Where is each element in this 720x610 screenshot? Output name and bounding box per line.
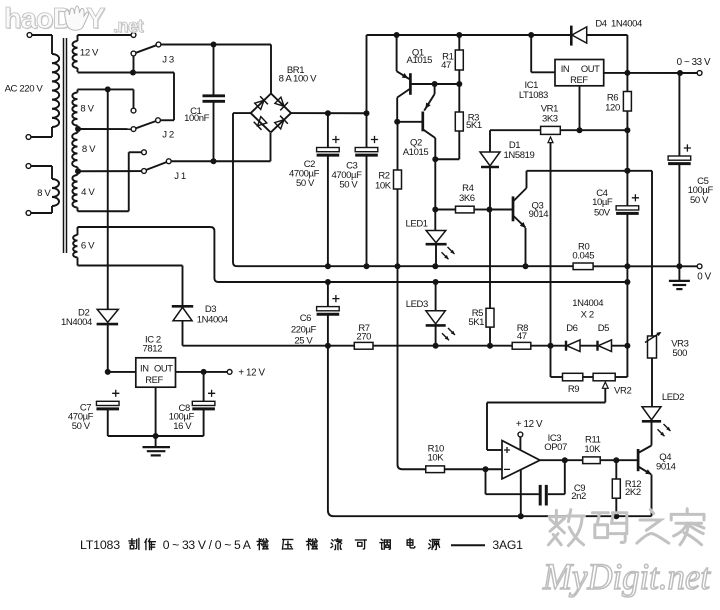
regulator IC1 LT1083 [555, 60, 604, 86]
label J2 [162, 130, 174, 141]
label C4 [592, 188, 613, 218]
capacitor C7 [96, 390, 155, 436]
svg-text:0.045: 0.045 [572, 250, 594, 261]
watermark MyDigit.net [542, 509, 712, 598]
resistor R2 [394, 122, 402, 266]
resistor R7 [354, 342, 512, 349]
wire 4V bottom to J1 upper contact [78, 152, 142, 211]
wire VR1 node [490, 127, 630, 133]
svg-text:0 ~ 33 V / 0 ~ 5 A: 0 ~ 33 V / 0 ~ 5 A [163, 538, 252, 552]
svg-text:10K: 10K [584, 444, 601, 455]
transformer core [64, 38, 67, 253]
wire aux rail 282 [222, 266, 630, 345]
transformer secondary 8V winding 1 [72, 89, 77, 129]
svg-text:8 V: 8 V [37, 188, 51, 199]
svg-text:A1015: A1015 [407, 55, 433, 66]
svg-text:16 V: 16 V [173, 421, 192, 432]
label R0 [572, 241, 594, 261]
label C2 [289, 159, 320, 189]
svg-text:REF: REF [145, 374, 163, 385]
transistor Q3 [487, 171, 527, 266]
svg-text:D3: D3 [205, 304, 216, 315]
svg-text:10K: 10K [428, 453, 445, 464]
label Q3 [529, 201, 549, 221]
label C6 [291, 313, 317, 346]
label C5 [688, 176, 714, 206]
svg-text:100nF: 100nF [184, 113, 210, 124]
label 0V [697, 271, 711, 282]
svg-text:LED2: LED2 [662, 392, 684, 403]
resistor R8 [512, 342, 553, 349]
svg-text:0 ~ 33 V: 0 ~ 33 V [677, 57, 711, 68]
svg-text:6 V: 6 V [81, 240, 95, 251]
svg-text:500: 500 [672, 348, 687, 359]
label R9 [568, 384, 579, 395]
resistor R1 [455, 35, 463, 84]
label Q2 [403, 138, 429, 159]
diode D5 [598, 340, 631, 352]
label LED2 [662, 392, 684, 403]
label 1N4004 X2 [572, 298, 603, 320]
svg-text:LED1: LED1 [406, 219, 428, 230]
wire IC2 REF [153, 387, 159, 439]
svg-text:0 V: 0 V [697, 271, 711, 282]
label D6 [566, 323, 577, 334]
wire R10 feed [398, 266, 405, 469]
svg-text:LT1083: LT1083 [519, 90, 548, 101]
svg-text:8 V: 8 V [80, 103, 94, 114]
transformer secondary 12V winding [73, 35, 78, 72]
wire bridge minus to 0V rail [233, 113, 251, 266]
wire rail345 left [183, 343, 355, 349]
wire primary top lead [27, 33, 52, 54]
svg-text:J 2: J 2 [162, 130, 174, 141]
label BR1 [279, 65, 317, 84]
transformer secondary 8V winding 2 [72, 129, 77, 171]
svg-text:120: 120 [605, 102, 620, 113]
capacitor C1 [203, 45, 226, 162]
capacitor C6 [317, 282, 340, 346]
label R7 [356, 323, 371, 342]
transformer secondary 4V winding [72, 171, 77, 211]
label C7 [68, 403, 94, 432]
label R5 [468, 308, 484, 328]
op-amp IC3 OP07 [486, 441, 541, 479]
label C8 [169, 403, 195, 432]
wire IC2 OUT to +12V [176, 369, 233, 375]
label 8V sec2 [82, 144, 96, 155]
wire plus riser [367, 35, 397, 113]
label R8 [517, 323, 528, 342]
label D2 [61, 307, 92, 328]
svg-text:25 V: 25 V [294, 335, 313, 346]
svg-text:VR2: VR2 [614, 386, 631, 397]
transistor Q4 [616, 446, 651, 517]
svg-text:OUT: OUT [581, 63, 600, 74]
svg-text:270: 270 [356, 331, 371, 342]
wire REF lead [579, 86, 581, 130]
caption LT1083 power supply title [80, 538, 523, 552]
svg-text:IN: IN [561, 63, 570, 74]
wire D4 corner down [626, 35, 628, 73]
svg-text:3AG1: 3AG1 [492, 538, 523, 552]
svg-text:+ 12 V: + 12 V [238, 367, 265, 378]
label J1 [174, 171, 186, 182]
label 12V [80, 47, 99, 58]
svg-text:5K1: 5K1 [466, 120, 482, 131]
diode D2 1N4004 [97, 89, 119, 372]
wire 0V rail left [241, 263, 573, 269]
switch J1 [142, 150, 172, 174]
resistor R5 [486, 210, 494, 346]
wire Q3 collector to VR3 [527, 168, 653, 336]
label D3 [197, 304, 228, 325]
diode D1 1N5819 [480, 130, 500, 209]
diode D6 [551, 340, 598, 352]
ground at IC2 [143, 436, 171, 455]
node tap 8V2/4V [75, 168, 142, 174]
wire primary2 bottom lead [26, 206, 52, 215]
svg-text:2K2: 2K2 [625, 487, 641, 498]
switch J3 [131, 42, 161, 70]
label J3 [162, 55, 174, 66]
svg-text:MyDigit.net: MyDigit.net [542, 557, 712, 598]
svg-text:1N4004: 1N4004 [197, 315, 228, 326]
svg-text:50V: 50V [594, 207, 611, 218]
svg-text:LT1083: LT1083 [80, 538, 120, 552]
svg-text:1N4004: 1N4004 [572, 298, 603, 309]
label IC2 [143, 334, 163, 354]
label D4 [595, 18, 642, 29]
label AC 220 V [5, 84, 44, 95]
svg-text:9014: 9014 [529, 209, 549, 220]
svg-text:D5: D5 [598, 323, 609, 334]
wire 12V bottom tap [78, 70, 175, 121]
svg-text:1N4004: 1N4004 [611, 18, 642, 29]
transformer secondary 6V winding [73, 227, 77, 266]
wire IC3 V- pin [518, 470, 524, 519]
resistor R4 [432, 159, 489, 213]
resistor R9 [551, 346, 594, 381]
LED LED1 [426, 210, 455, 267]
capacitor C5 [668, 73, 691, 266]
svg-text:5K1: 5K1 [468, 317, 484, 328]
resistor R12 [612, 460, 620, 519]
label R6 [605, 92, 620, 113]
label Q1 [407, 47, 433, 66]
label IC3 [544, 433, 567, 453]
svg-text:12 V: 12 V [80, 47, 99, 58]
svg-text:50 V: 50 V [690, 195, 709, 206]
label R11 [584, 434, 601, 455]
svg-text:LED3: LED3 [406, 299, 428, 310]
LED LED2 [642, 407, 671, 446]
wire IC3 output [540, 457, 583, 463]
label 4V [81, 187, 95, 198]
label C3 [331, 160, 362, 190]
label +12V [238, 367, 265, 378]
wire 6V bottom to D3 [78, 266, 183, 307]
bridge rectifier BR1 [251, 94, 291, 133]
label D1 [504, 140, 535, 161]
svg-text:IN: IN [140, 363, 149, 374]
label VR2 [614, 386, 631, 397]
transistor Q2 [394, 84, 435, 159]
capacitor C8 [156, 372, 216, 436]
svg-text:8 V: 8 V [82, 144, 96, 155]
svg-text:X 2: X 2 [581, 309, 594, 320]
svg-text:47: 47 [441, 60, 451, 71]
label VR3 [671, 339, 688, 359]
resistor R3 [432, 84, 463, 162]
transistor Q1 [397, 35, 463, 122]
wire 12V top to terminal [78, 33, 136, 38]
svg-text:50 V: 50 V [72, 421, 91, 432]
svg-text:OP07: OP07 [544, 442, 567, 453]
svg-text:R9: R9 [568, 384, 579, 395]
label IC1 [519, 80, 548, 101]
svg-text:D4: D4 [595, 18, 606, 29]
capacitor C3 [355, 113, 378, 266]
wire bottom rail [328, 346, 652, 517]
svg-text:D6: D6 [566, 323, 577, 334]
label R12 [625, 479, 641, 498]
wire 8V1 top tap [78, 86, 134, 108]
wire VR2 wiper to op-amp + [487, 403, 605, 451]
svg-text:J 3: J 3 [162, 55, 174, 66]
wire output rail 0-33V [627, 70, 702, 76]
svg-text:Y: Y [86, 3, 105, 35]
label 8V primary [37, 188, 51, 199]
node tap 8V1/8V2 [75, 126, 131, 132]
label VR1 [541, 104, 558, 125]
transformer T1 primary aux winding 8V [52, 179, 59, 206]
label op amp +12V [516, 419, 543, 430]
regulator IC2 7812 [136, 358, 176, 387]
svg-text:.net: .net [113, 16, 144, 36]
svg-text:50 V: 50 V [339, 179, 358, 190]
svg-text:1N5819: 1N5819 [504, 150, 535, 161]
LED LED3 [426, 282, 455, 346]
svg-text:220µF: 220µF [291, 325, 317, 336]
potentiometer VR1 3K3 [541, 126, 561, 345]
svg-text:REF: REF [570, 74, 588, 85]
resistor R0 0.045 [573, 263, 593, 270]
label R1 [441, 51, 453, 70]
label 6V [81, 240, 95, 251]
capacitor C4 [616, 130, 639, 266]
transformer T1 primary winding AC220V [52, 54, 59, 127]
label R3 [466, 112, 482, 131]
label C1 [184, 106, 210, 124]
wire IN lead [531, 35, 555, 72]
label D5 [598, 323, 609, 334]
svg-text:2n2: 2n2 [571, 491, 586, 502]
svg-text:10K: 10K [375, 180, 392, 191]
svg-text:47: 47 [517, 331, 527, 342]
svg-text:OUT: OUT [154, 363, 173, 374]
svg-text:1N4004: 1N4004 [61, 317, 92, 328]
switch J2 [131, 108, 160, 131]
svg-text:7812: 7812 [143, 344, 163, 355]
wire top positive rail [394, 32, 571, 38]
label R10 [428, 443, 445, 463]
svg-text:50 V: 50 V [296, 178, 315, 189]
watermark haoDIY.net [4, 3, 145, 37]
wire J3 pole to AC rail [161, 42, 271, 94]
svg-text:8 A 100 V: 8 A 100 V [279, 73, 317, 84]
wire 0V rail right [593, 263, 702, 269]
potentiometer VR2 [593, 346, 627, 403]
svg-text:4 V: 4 V [81, 187, 95, 198]
svg-text:J 1: J 1 [174, 171, 186, 182]
ground at 0V output [669, 266, 690, 289]
capacitor C9 2n2 [486, 460, 565, 505]
wire bridge plus rail [291, 110, 370, 116]
svg-text:A1015: A1015 [403, 147, 429, 158]
label R2 [375, 170, 392, 191]
wire IC2 IN [105, 369, 136, 375]
svg-text:+ 12 V: + 12 V [516, 419, 543, 430]
wire 6V top to aux rail [78, 227, 223, 282]
rheostat VR3 500 [645, 332, 661, 407]
label Q4 [656, 452, 676, 473]
label 8V sec1 [80, 103, 94, 114]
wire OUT lead [604, 70, 631, 76]
label 0~33V [677, 57, 711, 68]
wire J1 pole to bridge [171, 133, 270, 164]
svg-text:haoD: haoD [4, 3, 73, 35]
wire IC3 V+ pin [518, 432, 523, 450]
resistor R11 [583, 457, 620, 464]
svg-text:C6: C6 [300, 313, 311, 324]
capacitor C2 [317, 113, 340, 266]
svg-text:100µF: 100µF [688, 185, 714, 196]
wire primary2 top lead [26, 164, 52, 179]
svg-text:3K3: 3K3 [542, 114, 558, 125]
label LED1 [406, 219, 428, 230]
resistor R6 [623, 73, 631, 130]
wire primary bottom lead [26, 127, 52, 139]
label R4 [459, 183, 475, 204]
diode D3 1N4004 [172, 306, 193, 345]
label C9 [571, 483, 586, 502]
svg-text:9014: 9014 [656, 461, 676, 472]
diode D4 [571, 26, 627, 46]
svg-text:3K6: 3K6 [459, 193, 475, 204]
svg-text:AC 220 V: AC 220 V [5, 84, 44, 95]
label LED3 [406, 299, 428, 310]
resistor R10 [404, 466, 489, 473]
